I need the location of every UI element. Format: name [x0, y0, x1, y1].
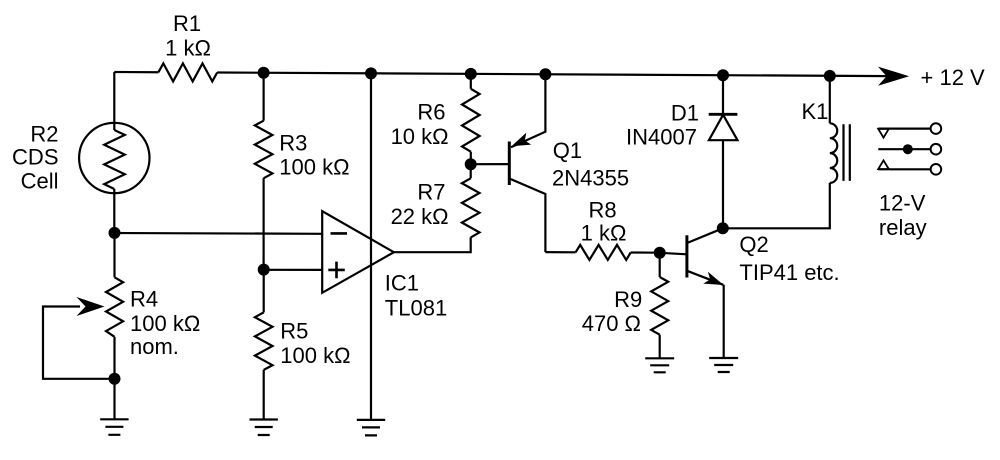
wire Q2 emitter to ground — [723, 285, 725, 358]
resistor R7 — [462, 178, 480, 237]
transistor Q2 base bar — [685, 235, 688, 277]
svg-text:12-V: 12-V — [879, 191, 926, 216]
svg-text:470 Ω: 470 Ω — [582, 311, 641, 336]
svg-text:Q2: Q2 — [739, 232, 768, 257]
+12V arrowhead — [878, 67, 909, 86]
svg-text:1 kΩ: 1 kΩ — [165, 36, 211, 61]
ground (R4) — [100, 419, 128, 435]
photocell R2 circle — [79, 123, 149, 193]
relay contact middle line — [878, 148, 930, 150]
svg-text:R8: R8 — [588, 198, 616, 223]
relay contact pole dot — [903, 144, 913, 154]
svg-text:IN4007: IN4007 — [626, 124, 697, 149]
svg-text:22 kΩ: 22 kΩ — [391, 204, 449, 229]
node J (D1/K1/Q2 collector) — [717, 222, 729, 234]
relay contact bottom triangle — [878, 160, 889, 169]
wire rail to R6 — [470, 74, 472, 89]
svg-text:Q1: Q1 — [553, 138, 582, 163]
Q1 emitter arrowhead — [512, 133, 532, 147]
svg-text:R4: R4 — [130, 287, 158, 312]
wire R7 top to node F — [470, 164, 472, 178]
diode D1 triangle — [709, 115, 738, 140]
wire node D down to R5 — [263, 270, 265, 313]
wire op-amp output — [394, 237, 471, 252]
relay contact bottom line — [878, 168, 930, 170]
node K (rail/D1) — [717, 69, 729, 81]
svg-text:Cell: Cell — [21, 169, 59, 194]
node G (rail/R6) — [465, 68, 477, 80]
ground (R5) — [250, 420, 278, 436]
potentiometer R4 — [106, 277, 123, 337]
relay contact top terminal circle — [931, 123, 942, 134]
wire top rail right segment — [217, 73, 890, 77]
svg-text:R3: R3 — [279, 130, 307, 155]
wire R4 bottom to node B — [113, 337, 115, 379]
svg-text:D1: D1 — [671, 100, 699, 125]
Q2 emitter arrowhead — [703, 272, 723, 285]
wire K1 bottom to node J — [723, 183, 830, 228]
wire rail to D1 — [722, 75, 724, 114]
wire node D to op-amp non-inverting input — [264, 269, 323, 271]
svg-text:R1: R1 — [173, 11, 201, 36]
svg-text:K1: K1 — [802, 99, 829, 124]
svg-text:relay: relay — [879, 215, 927, 240]
svg-text:10 kΩ: 10 kΩ — [391, 124, 449, 149]
svg-text:R7: R7 — [417, 180, 445, 205]
Q2 collector wire — [688, 228, 723, 242]
svg-text:100 kΩ: 100 kΩ — [280, 343, 350, 368]
diode D1 cathode bar — [709, 113, 738, 116]
node B (R4 bottom/wiper) — [109, 373, 121, 385]
svg-text:1 kΩ: 1 kΩ — [581, 221, 627, 246]
node A (R2/R4/inverting input) — [109, 227, 121, 239]
wire rail to R3 — [263, 73, 265, 121]
relay contact bottom terminal circle — [931, 164, 942, 175]
wire node I to R9 — [659, 253, 661, 277]
node H (rail/Q1 emitter) — [539, 68, 551, 80]
svg-text:2N4355: 2N4355 — [552, 166, 629, 191]
wire node B to ground — [113, 379, 115, 420]
wire Q1 collector to R8 — [545, 251, 575, 253]
wire node F to Q1 base — [471, 163, 510, 165]
K1 core lines — [844, 124, 850, 181]
resistor R6 — [462, 89, 480, 152]
node F (R6/R7/Q1 base) — [465, 158, 477, 170]
svg-text:100 kΩ: 100 kΩ — [279, 155, 349, 180]
resistor R3 — [255, 121, 273, 179]
wire rail to K1 coil — [829, 76, 831, 123]
Q2 emitter wire — [688, 271, 723, 285]
wire R3 bottom to node D — [263, 178, 265, 269]
svg-text:R5: R5 — [280, 319, 308, 344]
wire op-amp supply rail to ground — [370, 73, 372, 420]
wire R2 bottom to node — [113, 189, 115, 233]
svg-text:IC1: IC1 — [385, 270, 419, 295]
relay contact top line — [878, 128, 930, 130]
node I (R8/R9/Q2 base) — [654, 247, 666, 259]
wire top rail left segment — [114, 71, 158, 73]
wire Q1 emitter from rail — [511, 74, 545, 147]
svg-text:R2: R2 — [30, 122, 58, 147]
Q1 collector wire — [509, 179, 545, 253]
ground (op-amp) — [357, 420, 385, 436]
svg-text:nom.: nom. — [130, 334, 179, 359]
wire wiper to bottom node B — [43, 307, 115, 379]
resistor R1 — [158, 63, 217, 81]
wire R6 bottom to node F — [470, 152, 472, 165]
wire from rail down to R2 — [113, 72, 115, 130]
wire R5 to ground — [263, 370, 265, 420]
svg-text:CDS: CDS — [12, 144, 58, 169]
relay contact top triangle — [878, 129, 889, 138]
wire R8 to node I — [631, 251, 660, 253]
svg-text:R9: R9 — [614, 287, 642, 312]
transistor Q1 base bar — [508, 142, 511, 186]
wire R9 to ground — [659, 335, 661, 359]
relay coil K1 — [830, 123, 837, 183]
wire node I to Q2 base — [660, 253, 687, 255]
resistor R8 — [576, 245, 631, 260]
relay contact middle terminal circle — [931, 144, 942, 155]
wire node A down to R4 — [113, 233, 115, 277]
wire D1 to node J — [722, 140, 724, 228]
resistor R9 — [651, 277, 668, 335]
node D (R3/R5/non-inverting input) — [258, 264, 270, 276]
svg-text:100 kΩ: 100 kΩ — [130, 311, 200, 336]
svg-text:TL081: TL081 — [385, 296, 447, 321]
op-amp U1 triangle — [322, 211, 394, 293]
resistor zigzag R2 — [104, 130, 125, 189]
resistor R5 — [255, 312, 273, 370]
node E (rail/op-amp supply) — [365, 67, 377, 79]
svg-text:R6: R6 — [417, 100, 445, 125]
svg-text:TIP41 etc.: TIP41 etc. — [739, 260, 839, 285]
svg-text:+ 12 V: + 12 V — [921, 65, 986, 90]
op-amp plus sign — [328, 262, 345, 279]
node L (rail/K1) — [824, 70, 836, 82]
wire node A to op-amp inverting input — [115, 232, 323, 235]
ground (Q2 emitter) — [709, 358, 738, 372]
op-amp minus sign — [331, 232, 348, 235]
R4 wiper arrow — [77, 297, 105, 316]
ground (R9) — [645, 358, 674, 372]
node C (rail/R3) — [258, 67, 270, 79]
